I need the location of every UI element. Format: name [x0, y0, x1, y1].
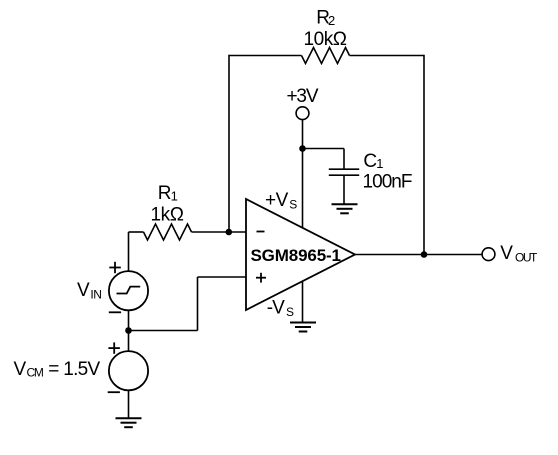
svg-text:1kΩ: 1kΩ	[151, 205, 185, 226]
wire R2 left lead	[229, 55, 302, 57]
wire -VS pin down	[302, 282, 304, 323]
source VIN minus sign	[109, 311, 121, 313]
junction node supply	[299, 145, 306, 152]
wire C1 top lead	[343, 149, 345, 170]
source VIN circle	[109, 271, 148, 310]
svg-text:C: C	[363, 151, 377, 172]
svg-text:R: R	[158, 183, 172, 204]
ground below C1	[332, 204, 358, 213]
ground below -VS	[290, 323, 316, 332]
wire output	[355, 254, 482, 256]
svg-text:100nF: 100nF	[363, 172, 413, 193]
op-amp inverting input minus mark	[257, 231, 265, 233]
wire VIN bottom	[128, 310, 130, 330]
svg-text:V: V	[14, 359, 27, 380]
junction node output/feedback	[421, 251, 428, 258]
wire bottom horizontal to noninverting path	[129, 330, 198, 332]
source VCM circle	[109, 351, 148, 390]
wire R1 left lead	[129, 231, 144, 233]
svg-text:V: V	[77, 280, 90, 301]
svg-text:2: 2	[328, 13, 335, 28]
wire VCM bottom	[128, 390, 130, 418]
svg-text:IN: IN	[90, 288, 102, 302]
source VIN step symbol	[117, 287, 141, 294]
resistor R1	[144, 224, 192, 240]
junction node VIN/VCM	[125, 327, 132, 334]
wire supply junction down to +VS pin	[302, 149, 304, 229]
svg-text:V: V	[500, 243, 513, 264]
source VCM plus sign	[108, 342, 120, 353]
op-amp U1 triangle	[246, 199, 355, 310]
wire R1 right lead to inverting input	[192, 231, 247, 233]
source VIN plus sign	[109, 262, 121, 273]
wire VIN top	[128, 232, 130, 271]
svg-text:= 1.5V: = 1.5V	[44, 359, 101, 380]
svg-text:1: 1	[171, 188, 178, 203]
source VCM minus sign	[108, 391, 120, 393]
wire feedback right vertical	[423, 55, 425, 255]
wire R2 right lead	[350, 55, 425, 57]
svg-text:+3V: +3V	[287, 86, 319, 107]
svg-text:-V: -V	[267, 298, 285, 319]
wire feedback left vertical	[228, 55, 230, 232]
svg-text:SGM8965-1: SGM8965-1	[251, 246, 342, 265]
op-amp noninverting input plus mark	[256, 273, 266, 283]
wire horizontal into noninverting input	[198, 276, 247, 278]
resistor R2	[302, 48, 350, 64]
supply +3V terminal circle	[296, 107, 309, 120]
svg-text:+V: +V	[265, 190, 289, 211]
capacitor C1	[329, 169, 359, 175]
wire C1 bottom lead	[343, 175, 345, 204]
terminal VOUT circle	[482, 248, 495, 261]
junction node inverting input	[226, 229, 233, 236]
wire supply junction right to C1	[303, 148, 345, 150]
wire +3V terminal down to junction	[302, 120, 304, 149]
svg-text:10kΩ: 10kΩ	[304, 29, 348, 50]
svg-text:1: 1	[376, 156, 383, 171]
svg-text:S: S	[289, 198, 297, 212]
wire vertical up to noninverting input	[197, 277, 199, 331]
ground below VCM	[116, 418, 142, 427]
svg-text:OUT: OUT	[515, 251, 538, 265]
svg-text:CM: CM	[27, 366, 44, 380]
wire VCM top	[128, 331, 130, 352]
svg-text:S: S	[286, 305, 294, 319]
